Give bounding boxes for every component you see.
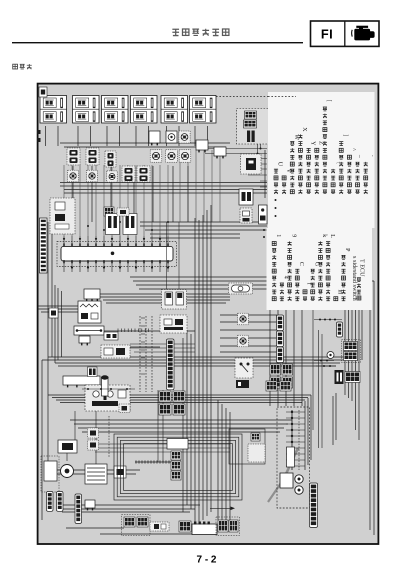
legend column: spark plug	[282, 169, 291, 194]
small conn pair mid	[104, 207, 114, 216]
white comp on loop top	[167, 439, 188, 450]
small fuse box	[79, 336, 90, 345]
right mid striped comp	[337, 322, 343, 337]
black comp under switch	[236, 380, 249, 388]
diagram sheet background	[38, 84, 379, 544]
dotted comp mid	[117, 208, 129, 216]
vertical connector strip	[167, 339, 175, 390]
lean angle sensor	[179, 131, 190, 143]
svg-text:W: W	[293, 134, 299, 140]
inner vertical rect	[287, 447, 295, 467]
fuse strip	[74, 326, 104, 335]
legend footnote bullets	[275, 199, 277, 217]
bottom connector single	[179, 521, 191, 532]
connector pair C	[277, 347, 284, 363]
dashed relay P	[240, 208, 252, 223]
legend column: O2 sensor	[331, 162, 340, 194]
connector pair A	[277, 315, 284, 331]
injector circle 1	[68, 170, 79, 182]
battery feed box	[63, 376, 100, 387]
round sensor K	[179, 150, 191, 162]
regulator block	[85, 464, 107, 484]
injector driver pair 2	[123, 214, 137, 235]
legend leader lines (right)	[205, 149, 267, 188]
engine icon	[352, 26, 375, 41]
injector pair E	[137, 166, 150, 182]
svg-text:L: L	[329, 234, 335, 238]
main relay with coil	[78, 301, 101, 323]
bottom white box (battery)	[192, 524, 217, 535]
legend column: coolant temp sensor	[290, 134, 299, 193]
main switch connector pair (dashed)	[162, 290, 187, 310]
svg-text:1: 1	[275, 234, 281, 237]
legend text block 1 background	[268, 92, 375, 228]
relay left of ECU (dashed)	[50, 198, 75, 234]
legend column: injector 1	[307, 141, 316, 194]
tick marks on harness	[118, 318, 149, 374]
injector pair C	[105, 151, 116, 167]
round sensor I	[150, 150, 162, 162]
svg-text:G: G	[313, 262, 319, 267]
fuse panel dashed box	[85, 385, 130, 411]
wire harness: horizontal buses	[38, 143, 374, 534]
legend column: ignition coil	[274, 162, 283, 194]
dashed aux box	[160, 315, 187, 333]
legend text block 2 background	[267, 228, 373, 310]
dotted harness verticals	[140, 316, 163, 462]
dotted leader over legend	[268, 96, 296, 98]
top connector pair near text2	[266, 381, 291, 391]
junction dot row	[82, 388, 135, 390]
fuel pump pill	[229, 283, 253, 294]
svg-text:9: 9	[290, 234, 296, 237]
sensor block G (circle)	[166, 131, 177, 143]
legend column: FI system relay	[326, 234, 335, 300]
FI label box	[311, 21, 380, 46]
header rule	[12, 42, 303, 43]
ECU connector bar	[61, 246, 173, 261]
legend column: electrical & FI fuse	[288, 234, 297, 301]
left edge small comp	[49, 308, 58, 318]
svg-text:^: ^	[350, 148, 356, 151]
dotted leader line from connector row	[216, 96, 300, 98]
stacked connector pair	[171, 451, 181, 480]
tick bus	[135, 460, 171, 463]
ECU pin stubs	[63, 236, 169, 272]
starter motor coil	[44, 461, 74, 481]
sidestand switch (dashed)	[235, 358, 253, 378]
ECU bus junction dots	[71, 221, 169, 231]
legend column: main switch	[280, 276, 289, 301]
dashed outline around left vbox	[41, 456, 59, 492]
right edge dark pair	[335, 370, 344, 384]
thick shielded cable	[286, 448, 298, 474]
right edge connector grid	[345, 372, 360, 383]
svg-text:V: V	[285, 169, 291, 174]
connector group row (6 battery-of-connector blocks)	[40, 96, 67, 124]
svg-text:X: X	[301, 127, 307, 132]
sensor feed drops into ECU	[64, 150, 220, 236]
battery top pins	[194, 522, 210, 525]
right mid junction rows	[314, 319, 342, 368]
legend column: intake air pressure sensor	[323, 100, 332, 194]
connector pair component	[239, 189, 253, 205]
border tick marks	[37, 130, 41, 142]
svg-text:7 - 2: 7 - 2	[196, 555, 216, 566]
sensor block F	[149, 131, 160, 145]
legend column: engine stop switch	[341, 248, 350, 301]
legend column: starting circuit cutoff relay	[318, 234, 327, 301]
injector circle 3	[107, 171, 117, 182]
legend column: lean angle cutoff switch	[347, 148, 356, 194]
starter relay	[58, 440, 77, 453]
injector circle 2	[87, 170, 98, 182]
svg-text:U: U	[277, 162, 283, 167]
dark connector pair above coil	[88, 367, 98, 377]
legend block2 bullets	[263, 229, 265, 238]
bottom-left connector stacks	[47, 492, 64, 512]
injector pair A	[67, 148, 80, 165]
ECU pin junction dots	[63, 238, 169, 269]
svg-text:k: k	[321, 234, 327, 237]
bottom row connector pair	[122, 515, 151, 536]
round component Q	[259, 205, 268, 224]
svg-text:C: C	[298, 262, 304, 266]
comp right of regulator	[114, 466, 126, 478]
legend column: battery	[303, 283, 313, 301]
svg-text:Z: Z	[318, 141, 324, 145]
bottom dotted comp	[150, 522, 169, 531]
round sensor J	[166, 150, 178, 162]
extra bottom-left harness lines	[67, 411, 230, 464]
rectifier block	[241, 154, 262, 174]
legend column: main fuse	[311, 262, 320, 301]
comp pair above regulator	[88, 428, 99, 450]
svg-text:Y: Y	[309, 141, 315, 146]
nested loop wires	[114, 434, 242, 500]
connector quad block	[270, 364, 293, 388]
svg-text:[: [	[326, 100, 332, 102]
crank box stub wires	[257, 144, 262, 155]
legend column: injector 2	[315, 141, 324, 194]
connector pair B	[277, 331, 284, 347]
legend column: speed sensor	[355, 154, 364, 194]
ECU connector bar dotted outline	[57, 241, 177, 266]
legend column: T ECU (engine)	[357, 259, 366, 300]
wire drops from top connectors	[46, 126, 208, 222]
wires to mid connector stack	[104, 310, 302, 406]
relay assembly left sub-box	[229, 429, 265, 464]
relay box small	[84, 289, 100, 301]
sub heading 接線圖 (pseudo-glyph)	[13, 64, 32, 69]
right mid circle comp	[327, 352, 334, 359]
legend column: crankshaft position sensor	[272, 234, 281, 300]
crankshaft position sensor assembly (dashed)	[237, 109, 269, 145]
bottom-left strip comps	[75, 494, 95, 523]
header title 車架注射系統 (pseudo-glyph)	[172, 29, 229, 36]
extra right verticals	[313, 310, 322, 448]
injector pair B	[86, 148, 99, 165]
bottom extra connector pair	[216, 517, 240, 536]
sheet corner tag	[39, 87, 47, 97]
svg-text:T ECU: T ECU	[359, 259, 366, 277]
legend column: ignition fuse	[295, 262, 304, 301]
svg-text:]: ]	[342, 134, 348, 136]
meter block	[214, 147, 226, 158]
connector quad bottom	[159, 391, 185, 415]
speed sensor block	[196, 140, 208, 152]
relay assembly dashed box	[277, 407, 310, 508]
junction ladder	[286, 410, 305, 470]
injector pair D	[122, 166, 135, 182]
terminal strip (stacked)	[310, 483, 318, 527]
dotted vertical left harness	[108, 416, 110, 457]
mid small comp	[104, 332, 118, 340]
arrow stub above battery	[210, 507, 235, 511]
injector driver pair 1	[106, 214, 120, 235]
ignition coil cylinder	[101, 375, 109, 400]
legend column: throttle position sensor	[339, 134, 348, 194]
ECU side striped connector	[40, 218, 48, 273]
legend column: motor	[334, 290, 343, 301]
legend column: sidestand switch (latin)	[351, 256, 358, 302]
svg-text:FI: FI	[321, 27, 333, 42]
dotted relay block	[101, 345, 130, 358]
legend column: multifunction meter	[364, 155, 373, 194]
svg-text:`: `	[366, 155, 372, 157]
right mid connector pair (dashed)	[342, 340, 361, 363]
sensor R2	[238, 335, 249, 347]
small dashed box lower	[119, 404, 130, 413]
legend column: intake air temp sensor	[298, 127, 307, 194]
sensor R1	[238, 313, 249, 325]
main switch feed wires	[130, 222, 195, 352]
wire harness: vertical runs	[42, 115, 374, 535]
svg-text:s sidestand switch: s sidestand switch	[351, 256, 358, 302]
starter relay box with terminals	[280, 473, 303, 494]
